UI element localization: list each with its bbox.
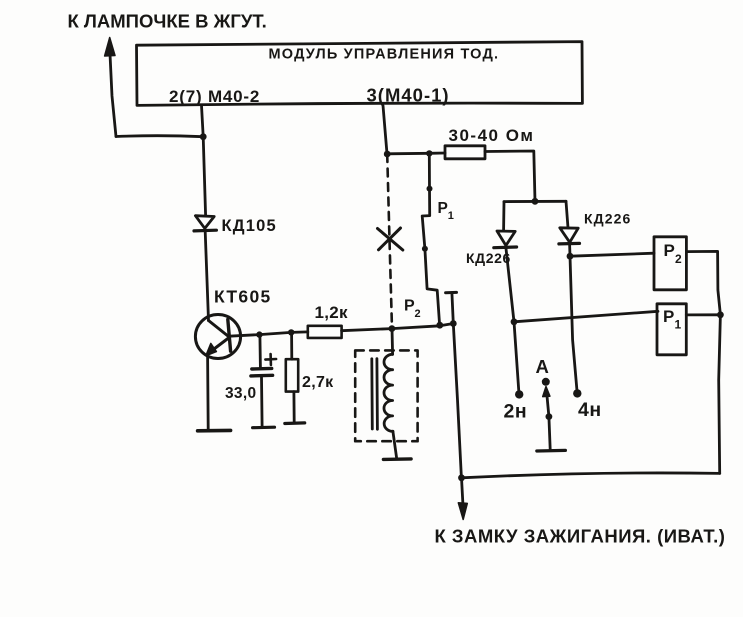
node A dot xyxy=(542,378,550,386)
wire: horizontal to node under pin 2(7) xyxy=(116,136,203,137)
junction dot (right edge / P1 out) xyxy=(717,311,724,318)
dashed wire down from pin3 node xyxy=(387,154,392,329)
relay contact P1 (chain from node) xyxy=(428,153,431,188)
svg-text:КД105: КД105 xyxy=(222,217,277,235)
wire: P1 wire junction to relay coil P1 xyxy=(514,311,658,322)
ground bar (node A) xyxy=(537,449,566,453)
arrowhead up to node A xyxy=(543,387,550,397)
ground bar (coil) xyxy=(383,457,411,461)
svg-text:2: 2 xyxy=(675,252,682,266)
wire: node down to terminal 4Н xyxy=(570,256,577,393)
junction dot (coil tap / dashed line end) xyxy=(389,325,396,332)
svg-text:А: А xyxy=(536,356,549,377)
wire: R1 to node P2 xyxy=(342,324,454,331)
wire: diode to transistor collector xyxy=(205,232,208,321)
svg-text:1: 1 xyxy=(675,318,682,332)
svg-text:3(М40-1): 3(М40-1) xyxy=(367,85,450,106)
svg-text:1,2к: 1,2к xyxy=(315,303,349,322)
relay coil P2 box xyxy=(654,237,686,290)
svg-text:Р: Р xyxy=(438,200,448,217)
junction dot (cap 33,0 tap) xyxy=(256,331,262,337)
wire: P1 coil right to right edge xyxy=(686,313,720,316)
junction dot on A wire xyxy=(546,413,553,420)
svg-text:КД226: КД226 xyxy=(584,211,631,227)
svg-text:КД226: КД226 xyxy=(466,250,511,266)
wire: node P2 down to bottom rail xyxy=(453,324,461,478)
wire: to ground xyxy=(549,417,550,450)
capacitor C1 33,0 xyxy=(258,335,261,368)
wire: node to relay coil P2 xyxy=(570,253,654,256)
emitter with arrow xyxy=(212,338,229,351)
bottom rail wire xyxy=(462,473,720,478)
junction dot (down-wire start) xyxy=(450,320,457,327)
arrow to ignition lock xyxy=(462,478,463,504)
wire: pin3 node to resistor 30-40 xyxy=(387,152,445,156)
svg-text:30-40 Ом: 30-40 Ом xyxy=(449,126,535,145)
wire: node to coil xyxy=(391,329,394,355)
module box МОДУЛЬ УПРАВЛЕНИЯ ТОД. xyxy=(137,42,583,106)
svg-text:К ЛАМПОЧКЕ В ЖГУТ.: К ЛАМПОЧКЕ В ЖГУТ. xyxy=(68,11,267,32)
diode VD2 КД226 (left) xyxy=(497,231,515,246)
svg-text:33,0: 33,0 xyxy=(225,385,256,402)
junction dot (R 2,7к tap) xyxy=(288,329,294,335)
ground bar (C1) xyxy=(253,426,275,430)
svg-text:Р: Р xyxy=(664,241,675,260)
wire: right diode to node xyxy=(568,244,571,256)
wire: R3 right, corner down xyxy=(485,151,535,201)
collector diagonal inside xyxy=(209,321,230,338)
inductor L1 winding xyxy=(384,354,393,431)
wire: base lead to R1 xyxy=(229,332,308,336)
junction dot (diode header) xyxy=(532,198,539,205)
wire: arrow lead to lamp harness xyxy=(110,54,116,137)
junction dot (P1 wire tap) xyxy=(511,318,518,325)
svg-text:К ЗАМКУ ЗАЖИГАНИЯ. (ИВАТ.): К ЗАМКУ ЗАЖИГАНИЯ. (ИВАТ.) xyxy=(435,526,726,547)
resistor R2 2,7к xyxy=(290,335,293,360)
svg-text:2н: 2н xyxy=(504,401,528,423)
relay contact P2 (fixed side, T-top) xyxy=(446,291,457,294)
wire: P2 coil right, corner down right edge xyxy=(686,251,720,473)
ground bar (emitter) xyxy=(198,429,231,433)
wire: pin 2(7) down to junction xyxy=(202,106,204,137)
svg-text:Р: Р xyxy=(663,307,674,326)
arrowhead up (to lamp) xyxy=(105,38,115,57)
svg-text:МОДУЛЬ УПРАВЛЕНИЯ ТОД.: МОДУЛЬ УПРАВЛЕНИЯ ТОД. xyxy=(269,47,500,63)
wire: left diode down to P1 wire junction xyxy=(506,249,514,322)
svg-text:2: 2 xyxy=(415,308,421,320)
wire: diode header horizontal xyxy=(504,200,566,203)
svg-text:1: 1 xyxy=(448,210,454,222)
terminal dot 4Н xyxy=(573,389,581,397)
junction dot (bottom rail) xyxy=(458,474,465,481)
wire: junction down to diode KD105 xyxy=(203,137,205,216)
wire: pin 3(М40-1) down xyxy=(383,106,387,154)
svg-text:4н: 4н xyxy=(578,399,602,421)
wire: junction down to terminal 2Н xyxy=(514,322,519,394)
X mark on dashed wire xyxy=(378,228,403,250)
core lines xyxy=(372,359,378,430)
ignition coil dashed box xyxy=(355,350,417,441)
svg-text:Р: Р xyxy=(404,298,415,315)
terminal dot 2Н xyxy=(515,390,523,398)
ground bar (R2) xyxy=(285,421,305,425)
diode VD3 КД226 (right) xyxy=(560,228,578,243)
junction dot (P1 contact branch) xyxy=(426,150,432,156)
wire: emitter down xyxy=(206,357,209,430)
svg-text:2,7к: 2,7к xyxy=(302,374,334,391)
junction dot (contact chain bottom) xyxy=(436,322,443,329)
wire: coil bottom to ground xyxy=(393,431,397,458)
diode VD1 КД105 xyxy=(195,216,214,229)
svg-text:КТ605: КТ605 xyxy=(214,287,272,307)
junction dot (P2 coil branch) xyxy=(567,253,574,260)
relay coil P1 box xyxy=(657,304,686,355)
svg-text:2(7) М40-2: 2(7) М40-2 xyxy=(169,87,260,106)
base bar xyxy=(228,320,231,352)
junction dot (lamp branch / pin 2 wire) xyxy=(200,133,207,140)
wire: drop to left KD226 xyxy=(502,202,505,230)
plus sign xyxy=(265,354,276,365)
wire: node A down xyxy=(547,396,549,417)
junction dot (pin3 node) xyxy=(384,151,391,158)
wire: drop to right KD226 xyxy=(566,201,568,228)
